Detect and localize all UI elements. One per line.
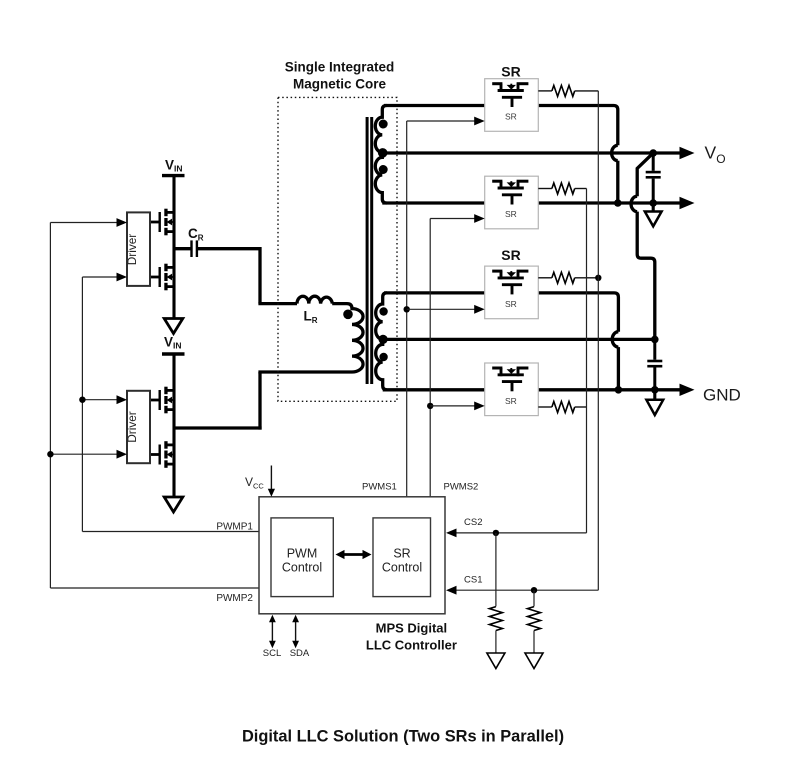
junction: upper centre tap <box>378 148 388 158</box>
terminal arrow VO <box>680 147 695 159</box>
SR control block <box>373 518 431 597</box>
pin SCL arrow <box>271 622 273 642</box>
transformer secondary winding (upper, centre-tapped) <box>375 106 386 204</box>
svg-text:SR: SR <box>505 112 517 122</box>
pin SDA arrow <box>295 622 297 642</box>
svg-text:CS2: CS2 <box>464 517 482 528</box>
wire VIN bar2 to Q3/Q4 half-bridge 2 column <box>172 354 175 497</box>
svg-text:SR: SR <box>393 547 410 561</box>
resistor R1 (SR1 sense) <box>538 90 552 92</box>
transistor Q2 (low side, bridge 1) <box>150 264 176 291</box>
svg-text:PWMS1: PWMS1 <box>362 482 397 493</box>
SR block U6 (SR4) <box>485 363 539 416</box>
ground (half-bridge 2) <box>164 497 183 512</box>
capacitor C out 2 <box>647 339 662 389</box>
resistor R6 (CS1 shunt) <box>533 590 535 606</box>
svg-text:GND: GND <box>703 386 741 405</box>
polarity dot (secondary upper b) <box>379 165 388 174</box>
SR block U4 (SR2) <box>485 176 539 229</box>
svg-text:VIN: VIN <box>165 158 183 174</box>
wire hop: VO drop over upper return rail <box>631 196 637 211</box>
wire upper return rail (secondary bottom end through SR2) <box>382 201 681 204</box>
terminal arrow GND <box>680 384 695 396</box>
svg-text:VIN: VIN <box>164 334 182 350</box>
svg-text:PWM: PWM <box>287 547 318 561</box>
svg-text:Control: Control <box>382 561 422 575</box>
MPS digital LLC controller box <box>259 497 445 614</box>
svg-text:SR: SR <box>505 299 517 309</box>
transistor Q1 (high side, bridge 1) <box>150 209 176 236</box>
junction PWMS1 / SR3 input <box>404 306 410 312</box>
wire PWMP1 vertical (drives Q2 & Q3 drivers) <box>81 277 83 532</box>
svg-text:VO: VO <box>705 143 726 167</box>
resistor R5 (CS2 shunt) <box>495 533 497 607</box>
wire CS1 sense line (SR1/SR3) <box>597 91 599 590</box>
wire secondary lower top end to SR3 <box>384 291 485 294</box>
svg-text:LR: LR <box>304 309 318 326</box>
wire hop: SR3 output over lower tap rail <box>612 332 618 347</box>
SR block U3 (SR1) <box>485 79 539 132</box>
arrow PWM-SR link <box>341 553 366 556</box>
svg-text:Single Integrated: Single Integrated <box>285 60 395 75</box>
junction CS2 / shunt 1 <box>493 530 499 536</box>
ground (upper return) <box>652 203 655 212</box>
transistor Q3 (high side, bridge 2) <box>150 387 176 414</box>
VIN bar 1 <box>162 174 185 177</box>
dashed boundary: single integrated magnetic core <box>278 97 397 401</box>
wire VO to lower centre tap (crossover) <box>637 153 653 196</box>
wire VO rail (upper centre tap to VO arrow) <box>383 151 681 154</box>
resistor R2 (SR2 sense) <box>538 188 552 190</box>
wire driver2 lower input <box>50 453 118 455</box>
ground (CS2 shunt) <box>487 653 505 669</box>
capacitor CR <box>188 226 204 257</box>
transistor Q4 (low side, bridge 2) <box>150 441 176 468</box>
svg-text:PWMP1: PWMP1 <box>216 522 253 533</box>
transformer secondary winding (lower, centre-tapped) <box>376 293 387 390</box>
wire PWMP2 vertical (drives Q1 & Q4 drivers) <box>49 223 51 589</box>
wire driver1 upper input <box>50 222 118 224</box>
svg-text:SR: SR <box>501 64 520 80</box>
junction SR3 output / GND rail <box>615 386 623 394</box>
svg-text:MPS Digital: MPS Digital <box>376 621 448 636</box>
junction PWMP2 / driver2 lower <box>47 451 53 457</box>
inductor LR <box>297 296 332 303</box>
svg-text:SR: SR <box>501 247 520 263</box>
polarity dot (primary) <box>343 310 353 320</box>
junction GND rail / cap2 <box>651 386 659 394</box>
ground (half-bridge 1) <box>164 319 183 334</box>
driver U2 (bridge 2) <box>125 391 150 463</box>
PWM control block <box>271 518 333 597</box>
terminal arrow (upper return) <box>680 197 695 209</box>
polarity dot (secondary upper a) <box>379 120 388 129</box>
wire CS2 sense line (SR2/SR4) <box>586 189 588 533</box>
wire lower centre tap rail <box>383 338 655 341</box>
svg-text:Magnetic Core: Magnetic Core <box>293 77 387 92</box>
wire PWMP2 horizontal to controller <box>50 587 259 589</box>
junction R3 / CS1 sense line <box>595 275 601 281</box>
wire bridge2 midpoint to primary winding bottom <box>174 426 262 429</box>
junction: lower centre tap <box>379 335 388 344</box>
ground (CS1 shunt) <box>525 653 543 669</box>
wire SR3 input <box>407 308 476 310</box>
wire SR1 output to return rail <box>538 106 618 146</box>
svg-text:LLC Controller: LLC Controller <box>366 638 457 653</box>
svg-text:Driver: Driver <box>125 411 139 443</box>
wire CS1 input <box>453 589 598 591</box>
svg-text:PWMP2: PWMP2 <box>216 593 253 604</box>
junction lower tap rail / VO drop <box>651 336 659 344</box>
wire GND rail (lower secondary bottom end through SR4) <box>383 388 681 391</box>
junction CS1 / shunt 2 <box>531 587 537 593</box>
SR block U5 (SR3) <box>485 266 539 319</box>
svg-text:Driver: Driver <box>125 234 139 266</box>
wire VIN bar to Q1 and half-bridge 1 column <box>172 176 175 319</box>
junction PWMP1 / driver2 upper <box>79 397 85 403</box>
resistor R4 (SR4 sense) <box>538 406 552 408</box>
VIN bar 2 <box>162 352 185 355</box>
wire PWMS2 (SR2/SR4 drive) <box>429 219 431 497</box>
svg-text:Control: Control <box>282 561 322 575</box>
svg-text:Digital LLC Solution (Two SRs: Digital LLC Solution (Two SRs in Paralle… <box>242 728 564 746</box>
wire driver2 upper input <box>82 399 118 401</box>
junction SR1 output / return rail <box>614 199 622 207</box>
junction return rail / cap1 <box>649 199 657 207</box>
polarity dot (secondary lower b) <box>379 353 387 361</box>
junction PWMS2 / SR4 input <box>427 403 433 409</box>
wire CS2 input <box>453 532 587 534</box>
driver U1 (bridge 1) <box>125 212 150 286</box>
wire bridge1 midpoint to CR <box>174 247 191 250</box>
wire PWMS1 (SR1/SR3 drive) <box>406 121 408 497</box>
wire driver1 lower input <box>82 276 118 278</box>
polarity dot (secondary lower a) <box>379 307 387 315</box>
wire PWMP1 horizontal to controller <box>82 531 259 533</box>
wire SR3 output down to GND rail <box>538 293 618 332</box>
svg-text:SR: SR <box>505 209 517 219</box>
capacitor C out 1 <box>646 153 661 203</box>
svg-text:SR: SR <box>505 396 517 406</box>
resistor R3 (SR3 sense) <box>538 277 552 279</box>
svg-text:CR: CR <box>188 226 204 243</box>
svg-text:PWMS2: PWMS2 <box>444 482 479 493</box>
ground (output) <box>653 390 656 400</box>
svg-text:CS1: CS1 <box>464 575 482 586</box>
transformer core <box>366 117 369 384</box>
svg-text:VCC: VCC <box>245 475 264 491</box>
junction VO rail / cap1 <box>649 149 657 157</box>
svg-text:SDA: SDA <box>290 648 310 659</box>
wire secondary upper top end to SR1 <box>384 104 485 107</box>
wire CR to resonant tank <box>197 247 262 250</box>
transformer primary winding <box>332 304 363 372</box>
svg-text:SCL: SCL <box>263 648 281 659</box>
wire SR4 input <box>430 405 476 407</box>
wire hop: SR1 output over VO rail <box>612 145 618 160</box>
